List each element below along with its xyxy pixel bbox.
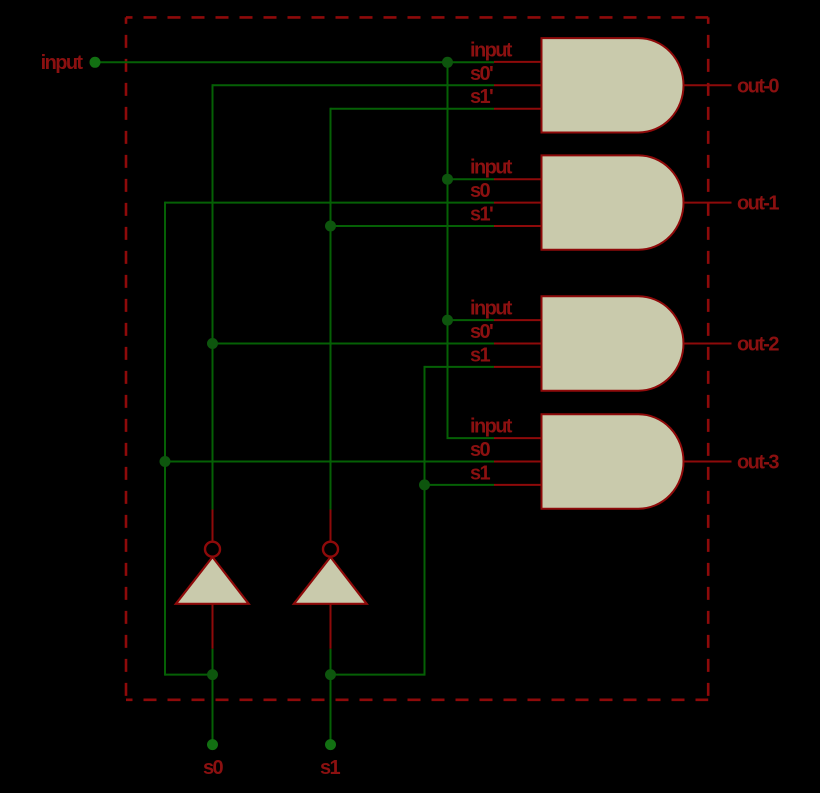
- node: junction input/gate3: [442, 315, 453, 326]
- svg-text:s1': s1': [470, 204, 493, 226]
- wire: s1 bottom horizontal: [331, 674, 425, 676]
- svg-text:input: input: [470, 157, 513, 179]
- AND gate U2 (out-1): [494, 155, 732, 249]
- node: junction s0 bottom: [207, 669, 218, 680]
- node: junction s0/gate4: [160, 456, 171, 467]
- svg-text:out-3: out-3: [737, 452, 779, 474]
- wire: s0 bottom horizontal: [165, 674, 213, 676]
- wire: gate4 s0 horizontal: [165, 461, 494, 463]
- inverter U6 (s1'): [294, 510, 367, 649]
- svg-text:s1: s1: [320, 757, 341, 779]
- svg-text:input: input: [470, 39, 513, 61]
- node: junction s1 bottom: [325, 669, 336, 680]
- svg-text:input: input: [41, 52, 84, 74]
- svg-text:s0: s0: [470, 439, 491, 461]
- svg-text:s0: s0: [470, 180, 491, 202]
- node: junction input/gate2: [442, 174, 453, 185]
- wire: gate3 s1 horizontal: [425, 366, 495, 368]
- wire: s1 port vertical: [330, 675, 332, 745]
- wire: gate2 s0 horizontal: [165, 202, 494, 204]
- wire: gate4 input horizontal: [447, 437, 495, 439]
- AND gate U1 (out-0): [494, 38, 732, 132]
- wire: s1 inverter input link: [330, 649, 332, 675]
- svg-text:out-1: out-1: [737, 193, 779, 215]
- wire: s0 left vertical: [164, 202, 166, 676]
- node: s0 terminal: [207, 739, 218, 750]
- wire: s0 inverter input link: [212, 649, 214, 675]
- svg-text:input: input: [470, 416, 513, 438]
- inverter U5 (s0'): [176, 510, 249, 649]
- svg-text:s0: s0: [203, 757, 224, 779]
- node: s1 terminal: [325, 739, 336, 750]
- svg-text:s1: s1: [470, 344, 491, 366]
- wire: gate2 input horizontal: [448, 178, 495, 180]
- AND gate U4 (out-3): [494, 414, 732, 508]
- AND gate U3 (out-2): [494, 296, 732, 390]
- wire: gate1 s0' horizontal: [213, 84, 495, 86]
- node: junction s1'/gate2: [325, 221, 336, 232]
- wire: input main horizontal: [95, 61, 494, 63]
- wire: gate4 s1 horizontal: [425, 484, 495, 486]
- wire: gate2 s1' horizontal: [331, 225, 495, 227]
- node: junction s0'/gate3: [207, 338, 218, 349]
- circuit boundary dashed box: [126, 17, 708, 699]
- node: input terminal: [90, 57, 101, 68]
- wire: s1 right vertical: [424, 366, 426, 676]
- svg-text:s0': s0': [470, 63, 493, 85]
- wire: gate3 s0' horizontal: [213, 343, 495, 345]
- wire: s0' vertical (from inverter U5 output): [212, 84, 214, 509]
- wire: s1' vertical (from inverter U6 output): [330, 108, 332, 510]
- wire: s0 port vertical: [212, 675, 214, 745]
- svg-text:s0': s0': [470, 321, 493, 343]
- svg-text:out-0: out-0: [737, 75, 779, 97]
- node: junction s1/gate4: [419, 479, 430, 490]
- svg-text:out-2: out-2: [737, 334, 779, 356]
- node: junction input/gate1: [442, 57, 453, 68]
- svg-text:s1': s1': [470, 86, 493, 108]
- wire: gate3 input horizontal: [448, 319, 495, 321]
- wire: input vertical bus: [447, 61, 449, 438]
- svg-text:s1: s1: [470, 462, 491, 484]
- wire: gate1 s1' horizontal: [331, 108, 495, 110]
- svg-text:input: input: [470, 298, 513, 320]
